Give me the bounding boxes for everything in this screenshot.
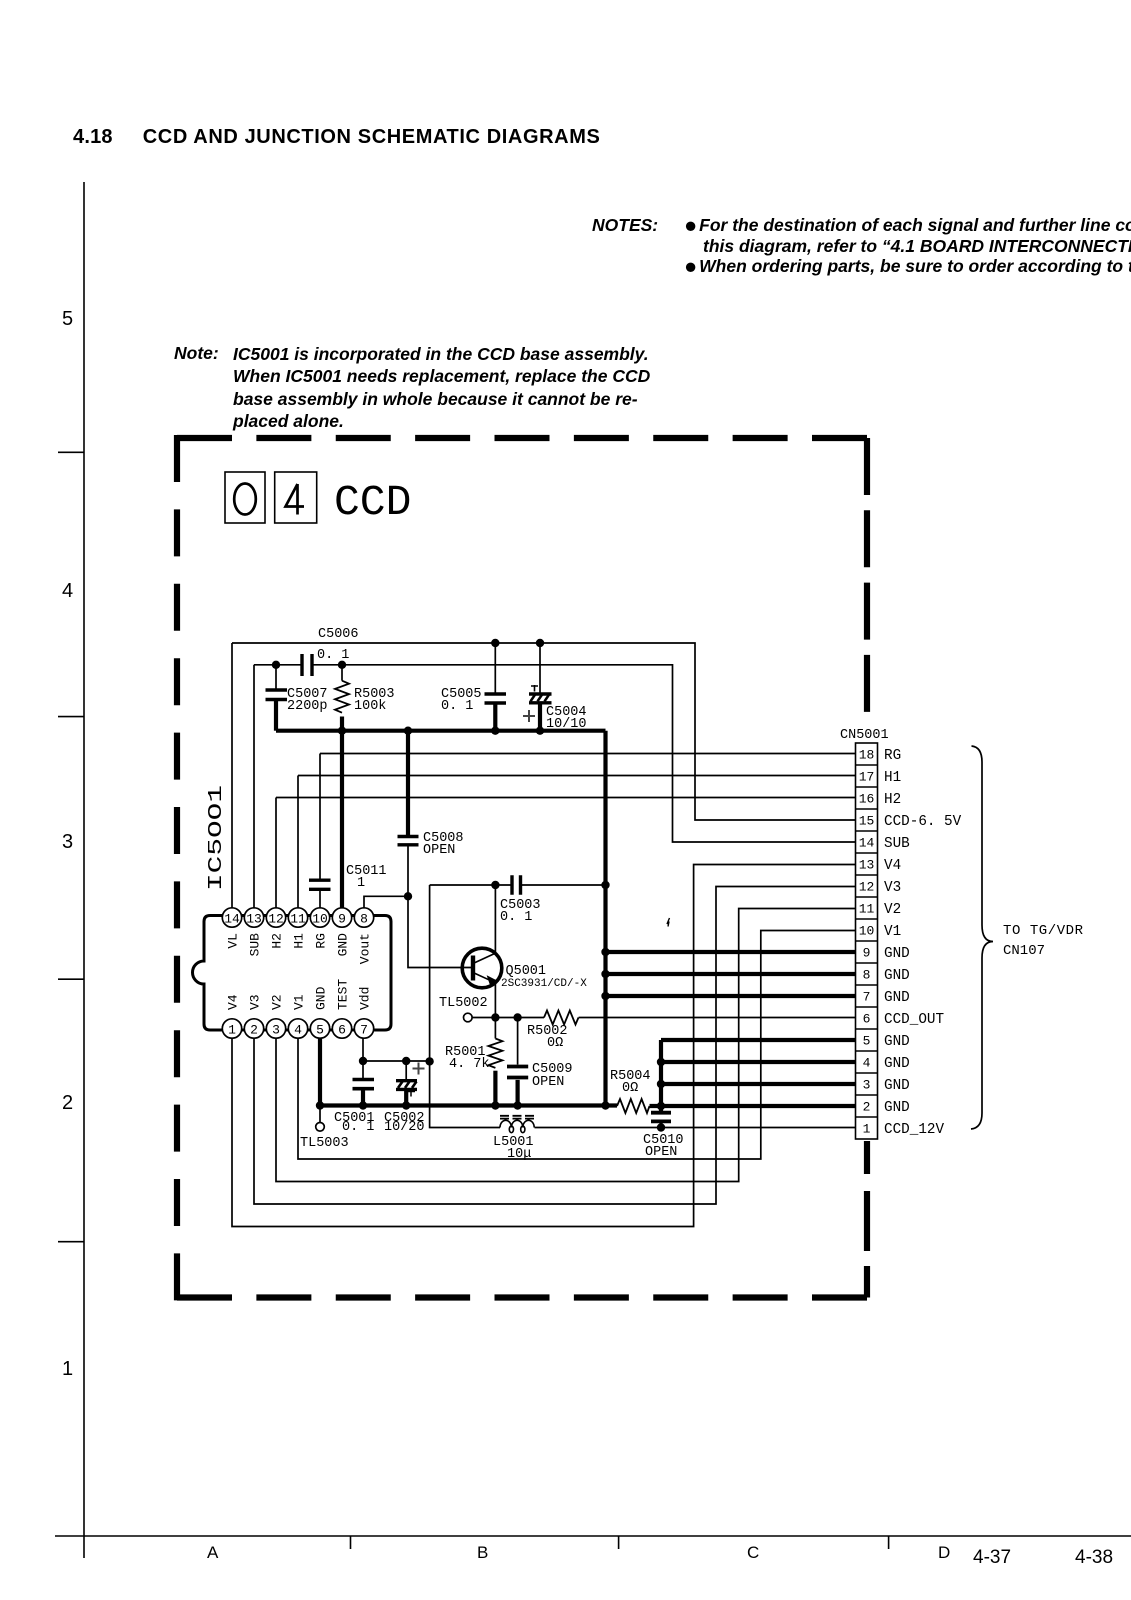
wire GND to CN5001 pin7 — [606, 994, 856, 998]
wire R5002 right to CN5001 pin6 CCD_OUT — [579, 1017, 856, 1019]
pin 1 — [222, 1019, 241, 1038]
junction C5008 / GND bus — [404, 727, 412, 735]
wire Vout: IC pin8 up and over to C5008 bottom node — [364, 896, 408, 908]
junction C5005 / GND bus — [491, 727, 499, 735]
wire C5009 bottom lead (thick) — [515, 1080, 519, 1106]
svg-text:TL5003: TL5003 — [300, 1136, 349, 1151]
junction C5003 / GND riser — [601, 881, 609, 889]
svg-text:7: 7 — [360, 1023, 368, 1038]
wire GND to CN5001 pin8 — [606, 972, 856, 976]
junction C5007 / SUB rail — [272, 661, 280, 669]
svg-text:1: 1 — [357, 876, 365, 891]
svg-text:GND: GND — [314, 986, 329, 1010]
svg-text:OPEN: OPEN — [423, 843, 455, 858]
svg-text:V1: V1 — [292, 994, 307, 1010]
wire VL rail to CN5001 pin15 CCD-6.5V — [232, 643, 856, 820]
wire GND to CN5001 pin5 — [661, 1038, 856, 1042]
junction C5005 / VL rail — [491, 639, 499, 647]
svg-text:10: 10 — [312, 912, 328, 927]
wire V2 loop: IC pin3 to CN5001 pin11 — [276, 909, 856, 1182]
wire Vdd rail: IC pin7 to riser — [363, 1060, 430, 1062]
wire C5005 bottom lead (thick) — [493, 703, 497, 731]
junction R5004 / C5010 / pin2 — [657, 1102, 665, 1110]
svg-text:2SC3931/CD/-X: 2SC3931/CD/-X — [501, 978, 587, 990]
capacitor C5010 — [651, 1113, 671, 1122]
wire Q5001 collector riser — [494, 885, 496, 953]
junction Vout / C5008 — [404, 892, 412, 900]
block id box 0 — [225, 472, 265, 523]
svg-text:5: 5 — [316, 1023, 324, 1038]
wire TL5002 to emitter node — [472, 1017, 495, 1019]
svg-text:12: 12 — [859, 880, 875, 895]
capacitor C5007 — [266, 690, 288, 700]
junction R5003 / SUB rail — [338, 661, 346, 669]
svg-text:RG: RG — [314, 933, 329, 949]
svg-text:H2: H2 — [884, 792, 901, 808]
svg-text:12: 12 — [268, 912, 284, 927]
svg-text:V2: V2 — [884, 902, 901, 918]
pin 8 — [354, 908, 373, 927]
svg-text:GND: GND — [884, 946, 910, 962]
svg-text:V2: V2 — [270, 994, 285, 1010]
wire R5001 bottom lead (thick) — [493, 1071, 497, 1106]
svg-text:CCD: CCD — [334, 478, 411, 527]
wire GND bus vertical (thick) — [603, 731, 607, 1106]
CN5001 pin numbers — [859, 748, 875, 1137]
junction R5003 / GND bus — [338, 727, 346, 735]
block id box 4 — [275, 472, 317, 523]
transistor Q5001 — [462, 948, 502, 988]
svg-text:GND: GND — [884, 968, 910, 984]
resistor R5004 — [617, 1099, 650, 1113]
svg-text:V3: V3 — [884, 880, 901, 896]
svg-text:OPEN: OPEN — [532, 1075, 564, 1090]
wire C5009 top lead — [517, 1018, 519, 1065]
wire Vdd riser x=429.6 — [429, 885, 431, 1061]
junction dots — [272, 639, 665, 1132]
svg-text:0. 1: 0. 1 — [441, 699, 473, 714]
junction pin7 Vdd rail — [359, 1057, 367, 1065]
svg-text:2200p: 2200p — [287, 699, 328, 714]
stray ink mark — [667, 918, 670, 927]
wire V4 loop: IC pin1 to CN5001 pin13 — [232, 865, 856, 1227]
test point TL5002 — [464, 1013, 473, 1022]
svg-text:10/20: 10/20 — [384, 1120, 425, 1135]
wire CCD_12V: Vdd riser down to L5001 — [430, 1061, 500, 1127]
wire C5002 bottom lead (thick) — [404, 1089, 408, 1105]
svg-text:GND: GND — [884, 1078, 910, 1094]
pin 6 — [332, 1019, 351, 1038]
svg-text:4: 4 — [294, 1023, 302, 1038]
svg-text:CN5001: CN5001 — [840, 728, 889, 743]
svg-text:CN107: CN107 — [1003, 943, 1045, 959]
svg-text:GND: GND — [884, 990, 910, 1006]
pin 12 — [266, 908, 285, 927]
wire C5001 top lead — [362, 1061, 364, 1080]
svg-text:CCD_12V: CCD_12V — [884, 1122, 944, 1138]
junction C5003 / collector — [491, 881, 499, 889]
capacitor C5006 (series in SUB rail) — [302, 654, 312, 676]
C5004 polarity + — [523, 710, 535, 722]
wire H1 rail to CN5001 pin17 — [298, 775, 856, 777]
svg-text:0. 1: 0. 1 — [500, 910, 532, 925]
svg-text:16: 16 — [859, 792, 875, 807]
svg-text:C5011: C5011 — [346, 864, 387, 879]
left margin zone numbers — [62, 308, 73, 331]
svg-text:9: 9 — [338, 912, 346, 927]
svg-text:VL: VL — [226, 933, 241, 949]
C5002 polarity + — [413, 1063, 425, 1075]
svg-text:17: 17 — [859, 770, 875, 785]
svg-text:18: 18 — [859, 748, 875, 763]
pin 4 — [288, 1019, 307, 1038]
wire C5001 bottom lead (thick) — [361, 1089, 365, 1106]
wire C5002 top lead — [405, 1061, 407, 1081]
junction C5002 / Vdd rail — [402, 1057, 410, 1065]
wire IC pin7 down to Vdd rail — [362, 1038, 364, 1061]
wire GND riser x=661 — [659, 1040, 663, 1106]
wire C5004 bottom lead (thick) — [538, 703, 542, 731]
capacitor C5004 (electrolytic) — [529, 685, 552, 703]
junction C5001 / GND bus — [359, 1101, 367, 1109]
svg-text:7: 7 — [863, 990, 871, 1005]
svg-text:H1: H1 — [884, 770, 901, 786]
svg-text:SUB: SUB — [884, 836, 910, 852]
svg-text:13: 13 — [246, 912, 262, 927]
svg-text:14: 14 — [224, 912, 240, 927]
wire C5010 top lead — [659, 1106, 663, 1112]
svg-text:0. 1: 0. 1 — [342, 1120, 374, 1135]
wire R5001 top lead — [494, 1018, 496, 1039]
svg-text:SUB: SUB — [248, 933, 263, 957]
svg-text:GND: GND — [884, 1100, 910, 1116]
wire SUB rail right of C5006 to CN5001 pin14 SUB — [312, 665, 856, 842]
wire R5004 right node to CN5001 pin2 GND — [650, 1104, 856, 1108]
capacitor C5005 — [485, 694, 507, 703]
svg-text:14: 14 — [859, 836, 875, 851]
IC pin name labels (rotated) — [226, 933, 373, 1010]
connector CN5001 label backing — [838, 720, 902, 742]
wire SUB rail left segment to C5006 — [254, 664, 302, 666]
svg-text:TO TG/VDR: TO TG/VDR — [1003, 923, 1084, 939]
capacitor C5008 — [398, 837, 419, 845]
junction Vdd rail / riser — [425, 1057, 433, 1065]
wire VL: IC pin14 up to VL rail — [231, 643, 233, 908]
svg-text:0. 1: 0. 1 — [317, 648, 349, 663]
IC pin numbers — [224, 912, 368, 1038]
svg-text:TEST: TEST — [336, 979, 351, 1010]
svg-text:10: 10 — [859, 924, 875, 939]
capacitor C5002 (electrolytic) — [396, 1081, 417, 1097]
svg-text:1: 1 — [228, 1023, 236, 1038]
wire CCD_12V: L5001 to C5010 node to CN5001 pin1 — [535, 1127, 856, 1129]
wire V1 loop: IC pin4 to CN5001 pin10 — [298, 931, 856, 1160]
wire GND to CN5001 pin9 — [606, 950, 856, 954]
svg-text:8: 8 — [863, 968, 871, 983]
wire GND to CN5001 pin4 — [661, 1060, 856, 1064]
junction C5009 / R5002 line — [513, 1013, 521, 1021]
svg-text:IC5OO1: IC5OO1 — [205, 785, 227, 891]
svg-text:11: 11 — [290, 912, 306, 927]
resistor R5002 — [544, 1011, 579, 1025]
page frame zone ticks bottom — [351, 1536, 889, 1549]
junction IC pin5 / TL5003 / GND bus — [316, 1101, 324, 1109]
svg-text:15: 15 — [859, 814, 875, 829]
wire R5003 bottom lead (thick) — [340, 717, 344, 731]
junction C5002 / GND bus — [402, 1101, 410, 1109]
section title — [73, 126, 600, 149]
wire H1: IC pin11 up to H1 rail — [297, 776, 299, 908]
junction C5004 / VL rail — [536, 639, 544, 647]
svg-text:V3: V3 — [248, 994, 263, 1010]
capacitor C5011 — [309, 880, 331, 889]
pin 2 — [244, 1019, 263, 1038]
page frame zone ticks left — [58, 452, 84, 1241]
block id digit 0 — [234, 484, 256, 515]
CN5001 signal names — [884, 748, 962, 1138]
svg-text:10/10: 10/10 — [546, 717, 587, 732]
svg-text:9: 9 — [863, 946, 871, 961]
wire C5005 top lead to VL rail — [494, 643, 496, 694]
svg-text:11: 11 — [859, 902, 875, 917]
junction C5004 / GND bus — [536, 727, 544, 735]
resistor R5001 — [488, 1039, 502, 1068]
svg-text:Q5001: Q5001 — [506, 964, 547, 979]
svg-text:OPEN: OPEN — [645, 1145, 677, 1160]
wire RG: C5011 up to RG rail — [319, 754, 321, 881]
wire C5004 top lead to VL rail — [539, 643, 541, 694]
svg-text:TL5002: TL5002 — [439, 996, 488, 1011]
wire V3 loop: IC pin2 to CN5001 pin12 — [254, 887, 856, 1205]
wire C5008 top lead (thick) — [406, 731, 410, 836]
svg-text:GND: GND — [884, 1034, 910, 1050]
svg-text:8: 8 — [360, 912, 368, 927]
wire IC pin9 GND to bus — [340, 731, 344, 908]
junction GND riser / pin9 — [601, 948, 609, 956]
page frame left rule — [83, 182, 85, 1558]
resistor R5003 — [335, 681, 349, 713]
svg-text:RG: RG — [884, 748, 901, 764]
svg-text:V4: V4 — [884, 858, 901, 874]
IC U IC5001 body — [193, 916, 392, 1031]
junction GND riser / pin7 — [601, 992, 609, 1000]
IC5001 pin circles top row — [222, 908, 373, 1038]
wire C5003 left to Vdd riser — [430, 884, 512, 886]
pin 5 — [310, 1019, 329, 1038]
svg-text:V4: V4 — [226, 994, 241, 1010]
wire TL5003 stub below GND bus — [319, 1106, 321, 1123]
junction C5009 / GND bus — [513, 1101, 521, 1109]
capacitor C5003 — [512, 875, 521, 895]
pin 3 — [266, 1019, 285, 1038]
svg-text:GND: GND — [884, 1056, 910, 1072]
pin 10 — [310, 908, 329, 927]
wire GND to CN5001 pin3 — [661, 1082, 856, 1086]
svg-text:H1: H1 — [292, 933, 307, 949]
svg-text:100k: 100k — [354, 699, 386, 714]
wire C5003 right to GND bus — [521, 884, 606, 886]
svg-text:1: 1 — [863, 1122, 871, 1137]
svg-text:2: 2 — [863, 1100, 871, 1115]
svg-text:CCD_OUT: CCD_OUT — [884, 1012, 944, 1028]
wire C5008 bottom lead — [407, 845, 409, 896]
brace to TG/VDR — [971, 746, 993, 1129]
wire GND bus bottom (thick) — [320, 1103, 617, 1107]
pin 9 — [332, 908, 351, 927]
wire emitter node to R5002 — [495, 1017, 544, 1019]
junction R5001 / GND bus — [491, 1101, 499, 1109]
notes paragraph top right — [592, 215, 658, 236]
svg-text:0Ω: 0Ω — [622, 1081, 638, 1096]
svg-text:3: 3 — [863, 1078, 871, 1093]
wire H2 rail to CN5001 pin16 — [276, 797, 856, 799]
capacitor C5001 — [353, 1080, 375, 1089]
svg-text:H2: H2 — [270, 933, 285, 949]
pin 7 — [354, 1019, 373, 1038]
junction emitter / TL5002 / R5001 — [491, 1013, 499, 1021]
svg-text:0Ω: 0Ω — [547, 1036, 563, 1051]
note paragraph — [174, 343, 219, 364]
junction GND riser2 / pin3 — [657, 1080, 665, 1088]
junction C5010 / CCD_12V line — [657, 1123, 665, 1131]
svg-text:C5006: C5006 — [318, 627, 359, 642]
svg-text:3: 3 — [272, 1023, 280, 1038]
svg-text:V1: V1 — [884, 924, 901, 940]
wire C5010 bottom lead — [660, 1121, 663, 1127]
svg-text:10μ: 10μ — [507, 1147, 531, 1162]
wire C5007 top lead from SUB rail — [275, 665, 277, 690]
svg-text:Vdd: Vdd — [358, 987, 373, 1010]
test point TL5003 — [316, 1123, 325, 1132]
wire RG rail to CN5001 pin18 — [320, 753, 856, 755]
inductor L5001 — [500, 1116, 535, 1133]
svg-text:GND: GND — [336, 933, 351, 957]
svg-text:4: 4 — [863, 1056, 871, 1071]
wire H2: IC pin12 up to H2 rail — [275, 798, 277, 908]
wire IC pin5 GND down to bus — [318, 1038, 322, 1105]
wire GND bus top (thick) — [276, 729, 606, 733]
connector CN5001 pin boxes — [856, 743, 878, 1139]
junction GND riser / pin8 — [601, 970, 609, 978]
wire C5007 bottom lead (thick) — [274, 700, 278, 731]
wire R5003 top lead from SUB rail — [341, 665, 343, 681]
bottom margin zone letters — [207, 1543, 218, 1563]
pin 11 — [288, 908, 307, 927]
block id digit 4 — [286, 484, 305, 515]
junction GND riser / GND bus — [601, 1101, 609, 1109]
svg-text:6: 6 — [863, 1012, 871, 1027]
svg-text:2: 2 — [250, 1023, 258, 1038]
junction GND riser2 / pin4 — [657, 1058, 665, 1066]
wire Q5001 emitter drop — [494, 983, 496, 1018]
wire SUB: IC pin13 up to SUB rail — [253, 665, 255, 908]
svg-text:CCD-6. 5V: CCD-6. 5V — [884, 814, 962, 830]
svg-text:4. 7k: 4. 7k — [449, 1057, 490, 1072]
svg-text:13: 13 — [859, 858, 875, 873]
pin 13 — [244, 908, 263, 927]
CCD board outline (dashed) — [177, 435, 867, 1301]
page frame bottom rule — [55, 1535, 1131, 1537]
svg-text:Vout: Vout — [358, 933, 373, 964]
pin 14 — [222, 908, 241, 927]
capacitor C5009 — [507, 1067, 528, 1078]
wire Vout node down to Q5001 base — [408, 896, 471, 967]
svg-text:5: 5 — [863, 1034, 871, 1049]
wire RG: IC pin10 stub to C5011 — [319, 889, 321, 908]
svg-text:6: 6 — [338, 1023, 346, 1038]
